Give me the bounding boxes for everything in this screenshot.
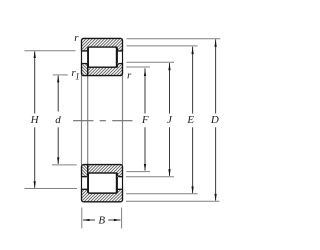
dimension B arrows and label [83, 215, 121, 227]
extension line D top [127, 38, 221, 40]
extension line d top [53, 74, 68, 76]
loose rib top section [82, 64, 88, 76]
side face lines across gap strip top section [82, 51, 123, 64]
loose rib bottom section [82, 165, 88, 177]
extension line F bottom [126, 171, 150, 173]
outer ring bottom section [82, 189, 123, 202]
bottom section (mirrored) [82, 165, 123, 202]
dimension F [141, 68, 149, 171]
extension line d bottom [52, 164, 77, 166]
dimension E [186, 47, 194, 194]
inner ring bottom section [88, 165, 123, 177]
svg-text:r: r [74, 32, 79, 44]
outer ring top section [82, 38, 123, 51]
extension line J top [126, 61, 174, 63]
dimension B extension line right [121, 208, 123, 229]
svg-text:d: d [55, 114, 61, 126]
svg-text:D: D [210, 114, 219, 126]
extension line J bottom [126, 176, 174, 178]
roller bottom section [88, 173, 116, 193]
svg-text:r: r [127, 69, 132, 81]
roller top section [88, 47, 116, 67]
wire: inner-ring side face projection line left [81, 75, 83, 165]
dimension H [30, 51, 40, 188]
dimension J [167, 63, 173, 176]
centerline [73, 120, 132, 122]
dimension d [55, 75, 61, 164]
extension line H top [25, 50, 76, 52]
extension line E top [127, 45, 198, 47]
top section [82, 38, 123, 75]
svg-text:E: E [186, 114, 194, 126]
svg-text:F: F [141, 114, 149, 126]
svg-text:H: H [30, 114, 40, 126]
wire: loose-rib seam projection line left [87, 75, 89, 165]
inner ring top section [88, 64, 123, 76]
extension line F top [126, 66, 150, 68]
dimension D [210, 39, 219, 201]
dimension B extension line left [81, 208, 83, 229]
extension line H bottom [25, 188, 78, 190]
extension line E bottom [126, 193, 198, 195]
extension line D bottom [126, 200, 219, 202]
svg-text:B: B [98, 215, 105, 227]
side face lines across gap strip bottom section [82, 177, 123, 190]
wire: inner-ring side face projection line right [122, 75, 124, 165]
